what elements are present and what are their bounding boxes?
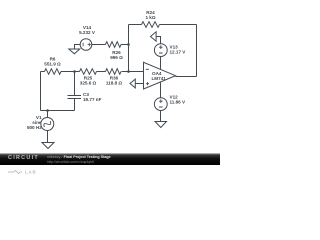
wire feedback left vertical [128,25,130,72]
voltage source V12 [154,98,167,111]
svg-text:1 kΩ: 1 kΩ [145,15,155,20]
resistor R24 [142,22,160,28]
svg-text:5.232 V: 5.232 V [79,30,96,35]
wire C3 stems [74,72,76,111]
footer text [47,155,111,159]
svg-text:325.6 Ω: 325.6 Ω [80,81,97,86]
svg-text:LM741: LM741 [152,76,167,81]
wire R6 left leg [40,72,42,111]
wire bottom rail [41,110,75,112]
svg-text:LAB: LAB [25,170,36,174]
svg-text:11.86 V: 11.86 V [170,100,187,105]
wire main rail [41,71,144,73]
voltage source V13 [154,44,167,57]
wire V14 to ground [75,45,81,50]
node junction R36/feedback [127,70,130,73]
node junction R26/feedback [127,43,130,46]
svg-text:12.17 V: 12.17 V [170,50,187,55]
ground at V1 [42,143,54,149]
svg-text:118.8 Ω: 118.8 Ω [106,81,123,86]
svg-text:19.77 nF: 19.77 nF [83,97,102,102]
wire right vertical output-to-feedback [196,25,198,77]
flag at V13 [151,32,157,41]
wire V+ pin [160,57,162,70]
svg-text:500 Hz: 500 Hz [27,125,42,130]
wire V1 top stem [47,111,49,118]
svg-text:551.9 Ω: 551.9 Ω [44,62,61,67]
ground at V14 [69,49,80,54]
wire V12 to ground [160,111,162,122]
node junction V1/bottom rail [46,109,49,112]
node junction R6/R25/C3 [73,70,76,73]
resistor R25 [80,69,97,75]
svg-text:996 Ω: 996 Ω [110,55,123,60]
resistor R26 [106,42,121,48]
wire V1 to ground [47,131,49,143]
wire feedback top rail [129,24,197,26]
voltage source V14 [80,39,92,51]
flag at op-amp + input [130,79,135,88]
wire V14 to R26 [92,44,106,46]
ground at V12 [155,122,167,128]
footer bar [0,153,220,165]
wire flag to + input [135,83,143,85]
capacitor C3 [68,96,82,99]
wire V- pin [160,82,162,98]
resistor R36 [106,69,121,75]
op-amp OA4 LM741 [144,62,176,89]
wire R26 to node [121,44,129,46]
wire op-amp output [176,76,197,78]
voltage source V1 sine [41,118,54,131]
CircuitLab logo [8,155,39,161]
wire V13 top stem [156,37,160,44]
resistor R6 [45,69,62,75]
